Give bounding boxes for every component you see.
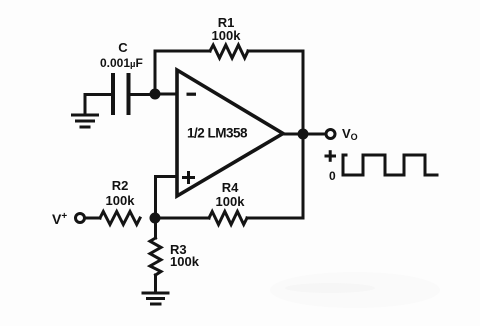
svg-text:V+: V+ [52, 211, 67, 227]
svg-text:0.001µF: 0.001µF [100, 56, 143, 70]
svg-text:100k: 100k [170, 254, 200, 269]
svg-text:100k: 100k [106, 193, 136, 208]
svg-text:1/2 LM358: 1/2 LM358 [187, 126, 248, 141]
svg-text:R2: R2 [112, 178, 129, 193]
svg-text:R4: R4 [222, 180, 239, 195]
svg-text:100k: 100k [212, 28, 242, 43]
svg-text:100k: 100k [216, 194, 246, 209]
svg-text:VO: VO [342, 126, 358, 142]
svg-text:C: C [118, 40, 128, 55]
svg-text:0: 0 [329, 169, 336, 183]
